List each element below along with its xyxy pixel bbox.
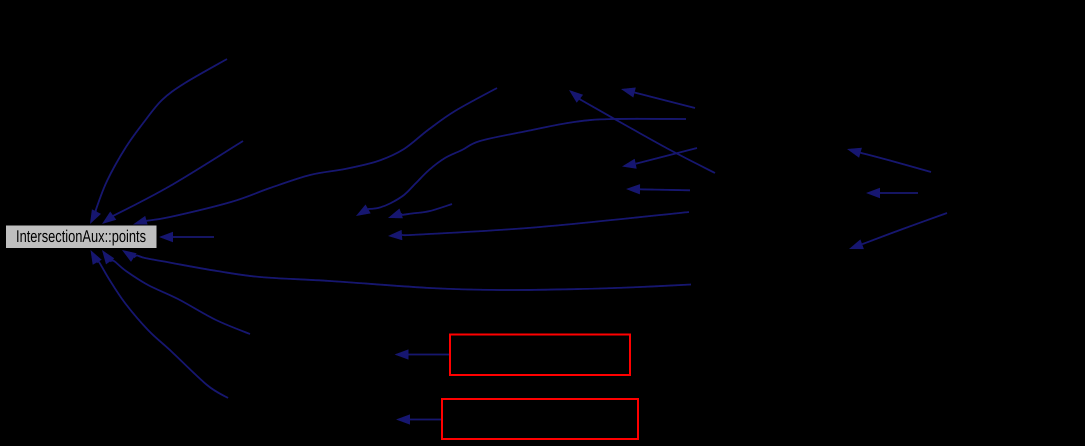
svg-text:IntersectionAux::points: IntersectionAux::points <box>16 227 146 246</box>
